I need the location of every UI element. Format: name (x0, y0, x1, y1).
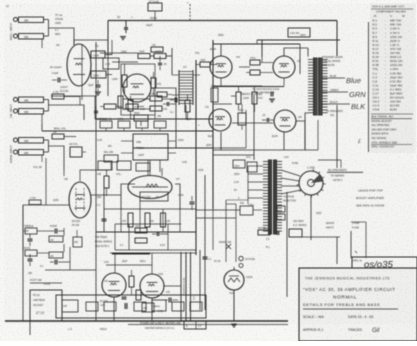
wire V8 anode up (80, 170, 110, 181)
svg-text:L.S.: L.S. (68, 328, 73, 331)
wire mid low v (114, 224, 116, 250)
wire V2 out (151, 88, 176, 95)
resistor R19c (126, 104, 138, 109)
resistor R37 (142, 303, 154, 312)
resistor R22d cathode bias (238, 113, 246, 125)
wire mid low h (115, 249, 196, 251)
wire PI left (121, 184, 135, 209)
svg-text:HT FUSE: HT FUSE (149, 2, 159, 4)
resistor R15c (157, 92, 167, 97)
wire v x305 low (310, 195, 312, 240)
svg-text:HEATER WIRING 6.3V A.C.: HEATER WIRING 6.3V A.C. (145, 327, 175, 330)
wire v x205 (204, 175, 206, 310)
resistor R29a vib vol pot (98, 161, 112, 170)
wire tone mesh (94, 96, 96, 119)
node terminal mark top (189, 4, 191, 20)
wire J2 row (44, 35, 49, 37)
wire HT branch y40 (257, 39, 340, 41)
capacitor C15 (124, 303, 126, 309)
resistor R55 fuse holder (277, 214, 285, 220)
svg-text:FIELD: FIELD (100, 328, 107, 331)
wire mid mesh h2 (123, 98, 150, 100)
node phase label box (140, 192, 168, 201)
wire V4 anode (213, 43, 300, 45)
wire bottom rail 2 (128, 324, 288, 326)
resistor R36 (136, 290, 141, 300)
resistor R28 vib-trem block (133, 134, 168, 160)
wire tone bus (22, 205, 24, 252)
resistor R39 (135, 238, 147, 243)
resistor R15 (151, 47, 163, 52)
capacitor C10b (54, 260, 56, 265)
resistor R11 (52, 134, 64, 139)
wire V8 out (91, 194, 121, 196)
tube V10a ECC83 (140, 274, 164, 298)
wire V5 anode (284, 48, 308, 56)
resistor R10 68K (19, 150, 44, 156)
resistor R48 (190, 302, 202, 311)
resistor R40 (258, 230, 270, 235)
wire V9 right (164, 285, 181, 287)
resistor R27 vol pot (134, 115, 148, 121)
wire V1 coupling (106, 40, 112, 55)
resistor R7 68K (19, 109, 44, 115)
switch SW1 voltage selector (299, 171, 323, 195)
transformer T3 vib coupling choke (178, 70, 180, 105)
wire choke links (172, 74, 179, 76)
wire bias bus (112, 252, 150, 254)
jack J4 (14, 109, 18, 113)
resistor R33 bass (25, 250, 37, 256)
wire V1 vert x108 (107, 40, 109, 96)
wire trem feed left (121, 140, 133, 142)
capacitor C4 (94, 110, 98, 112)
tube V3 vibrato (209, 109, 231, 131)
wire osc mesh top (231, 95, 236, 97)
resistor R5 box (91, 71, 106, 78)
resistor R6a column (103, 58, 119, 69)
resistor R14 (154, 54, 166, 59)
resistor R43 (86, 302, 98, 311)
resistor R24 (150, 106, 162, 111)
resistor R45 (134, 302, 146, 311)
node drg number box (352, 257, 417, 268)
wire pair3 bottom (18, 154, 42, 156)
wire output stage verticals (212, 40, 214, 209)
wire bottom rail (5, 320, 288, 322)
wire heater line 2 (185, 252, 187, 321)
tube V9 ECC83 trem (102, 273, 126, 297)
wire bus y131 (42, 130, 213, 132)
resistor R19 pot (136, 121, 148, 128)
wire V1 center (81, 44, 83, 100)
wire long v x246 (245, 110, 247, 148)
wire rect top (233, 267, 235, 270)
capacitor C14 (276, 231, 278, 235)
resistor R22b screen (250, 60, 260, 65)
capacitor C3 (158, 62, 162, 64)
wire v x213 low (212, 209, 214, 250)
node V8 grid labels (29, 200, 41, 205)
wire mains sec drop (247, 166, 249, 200)
resistor R54 fuse holder (277, 206, 285, 212)
tube V5 EL84 (273, 56, 295, 78)
wire V2 top mesh (118, 61, 138, 63)
resistor R47 (172, 302, 184, 311)
resistor R52 standby (240, 206, 253, 215)
wire OT primary top (307, 48, 309, 57)
transformer T1 output transformer (314, 58, 318, 115)
resistor R19b (104, 104, 116, 109)
wire HT rail top (108, 20, 337, 22)
tube V4 EL84 (210, 56, 232, 78)
wire normal rows (44, 139, 49, 141)
wire h y96 (51, 95, 97, 97)
wire mains h (300, 236, 340, 238)
resistor R17 speed pot (100, 121, 112, 128)
wire J1 row (44, 19, 49, 21)
resistor R9 68K (19, 138, 44, 144)
wire mains sec leads (248, 165, 263, 167)
wire pair2 bottom (18, 113, 42, 115)
resistor U1 footswitch box (30, 290, 62, 321)
wire PI top (147, 160, 149, 176)
ground main earth (231, 323, 237, 325)
resistor R30 box top (288, 28, 310, 37)
capacitor C2 cathode bypass (96, 84, 101, 86)
resistor R46 (152, 300, 166, 311)
resistor R23c (233, 160, 245, 168)
wire V4V5 cathode (220, 78, 222, 86)
tube V1 ECC83 (67, 44, 91, 86)
resistor R42 (62, 300, 78, 312)
resistor R29c pot (136, 163, 150, 171)
wire selector leads (281, 170, 300, 176)
wire right mid (318, 159, 341, 161)
svg-text:CT: CT (198, 324, 202, 328)
resistor R23b (211, 88, 218, 102)
capacitor C19 32uF reservoir (124, 27, 128, 29)
resistor R34b (73, 237, 82, 247)
resistor R2 68K (19, 34, 44, 40)
jack J1 (14, 18, 18, 22)
resistor R8 (52, 94, 64, 99)
fuse F1 (239, 256, 243, 260)
svg-text:E: E (186, 324, 188, 328)
wire footswitch drop (30, 282, 62, 284)
wire mid low link (167, 224, 169, 250)
capacitor C7 (166, 102, 168, 106)
capacitor C6 (266, 118, 268, 122)
node speaker series note (336, 105, 338, 168)
resistor R0 fuse box top (148, 3, 162, 11)
wire heater line 1 (180, 252, 182, 321)
resistor R4 anode load (91, 51, 105, 58)
resistor R25 (118, 96, 123, 108)
tube V7 phase splitter (128, 176, 172, 199)
resistor R6 68K (19, 97, 44, 103)
wire V9 bottom (151, 298, 153, 321)
resistor R22 grid V4 (200, 62, 210, 67)
ground V1 cathode (95, 91, 101, 93)
capacitor C13 (156, 232, 158, 236)
wire HT drop to output transformer (336, 21, 338, 57)
wire osc link (296, 121, 305, 150)
wire heater line 3 (190, 252, 192, 321)
jack J5 (14, 138, 18, 142)
resistor R32b (49, 236, 63, 242)
jack J3 (14, 98, 18, 102)
resistor R50 normal vol pot (70, 147, 82, 157)
capacitor C18 (174, 98, 176, 103)
tube V10 GZ34 rectifier (224, 270, 244, 290)
resistor R32 treble (25, 228, 37, 234)
transformer T2 mains transformer (269, 160, 272, 234)
wire right drop (350, 231, 352, 258)
resistor R21 (252, 92, 257, 104)
resistor R26a PI tail (128, 213, 133, 227)
wire h y253 (110, 252, 196, 254)
wire mains drop (286, 192, 288, 238)
capacitor C6b (270, 92, 272, 97)
resistor R53 earth tag box (184, 321, 206, 329)
resistor panel bottom left boxes (56, 295, 206, 318)
wire PI right (175, 184, 180, 209)
wire V8 grid (23, 204, 69, 206)
resistor R12 anode (122, 75, 127, 87)
resistor R23d (247, 162, 257, 172)
resistor R28b pot (104, 155, 118, 162)
wire screen bus (239, 66, 250, 68)
capacitor C17 (190, 201, 195, 203)
resistor R34 (49, 252, 63, 258)
wire OT sec blue (322, 77, 345, 79)
resistor R26c PI tail (161, 213, 166, 227)
node title block (299, 268, 417, 341)
jack J6 (14, 150, 18, 154)
resistor R41 (289, 229, 302, 237)
ground below C19 (120, 36, 126, 38)
capacitor C9 (54, 229, 56, 234)
resistor R29b vol pot (117, 161, 131, 170)
resistor R26 (185, 100, 190, 112)
resistor R18 ampl pot (118, 121, 130, 128)
resistor R35 (129, 276, 134, 287)
resistor R19d pot (154, 121, 166, 128)
wire mid mesh h1 (133, 147, 213, 149)
wire vib rows (44, 99, 49, 101)
resistor R13 (138, 54, 150, 59)
wire tone mesh2 (63, 228, 65, 236)
wire h y155 right (213, 154, 254, 156)
capacitor C16 (203, 256, 208, 258)
wire vib to V2 (49, 105, 85, 120)
wire OT sec black (322, 103, 350, 105)
wire h y210 (196, 209, 240, 211)
wire pair1 bottom (18, 38, 42, 40)
capacitor C1 decoupler (57, 78, 59, 83)
wire OT primary bottom (305, 113, 308, 150)
wire h y150 right (213, 149, 318, 151)
wire mid mesh v1 (175, 95, 177, 148)
wire PI mesh frame (104, 208, 196, 210)
tube V8 ECC83 normal (69, 182, 91, 218)
resistor R26b PI tail (145, 213, 150, 227)
resistor R20 (236, 92, 241, 104)
wire h y265 (106, 264, 152, 266)
resistor R23 (150, 96, 162, 101)
wire OT sec green (322, 91, 348, 93)
resistor R44 (104, 302, 116, 311)
wire trem drop (149, 160, 151, 176)
wire bus y119 (95, 118, 213, 120)
capacitor C10 (28, 258, 33, 260)
resistor R22c screen (250, 70, 260, 75)
resistor R16 cathode V2 (128, 100, 133, 111)
wire V1 anode to HT (74, 40, 108, 45)
wire grid link y123 (232, 122, 273, 124)
wire h y232 (96, 231, 196, 233)
jack J2 (14, 34, 18, 38)
capacitor C12 (168, 298, 170, 303)
tube V6 oscillator (274, 110, 296, 132)
wire long v x254 (253, 95, 255, 160)
resistor R1 68K (19, 17, 44, 23)
capacitor C8 (28, 238, 33, 240)
fuse F2 (239, 264, 243, 268)
tube V2 ECC83 (123, 74, 151, 102)
resistor R31 (104, 176, 109, 188)
resistor R15b (151, 78, 156, 88)
wire normal feed (49, 146, 65, 170)
wire V2 frame (121, 64, 155, 115)
resistor R38 (135, 228, 147, 233)
capacitor C11 (122, 296, 127, 298)
wire rect bottom (233, 290, 235, 321)
